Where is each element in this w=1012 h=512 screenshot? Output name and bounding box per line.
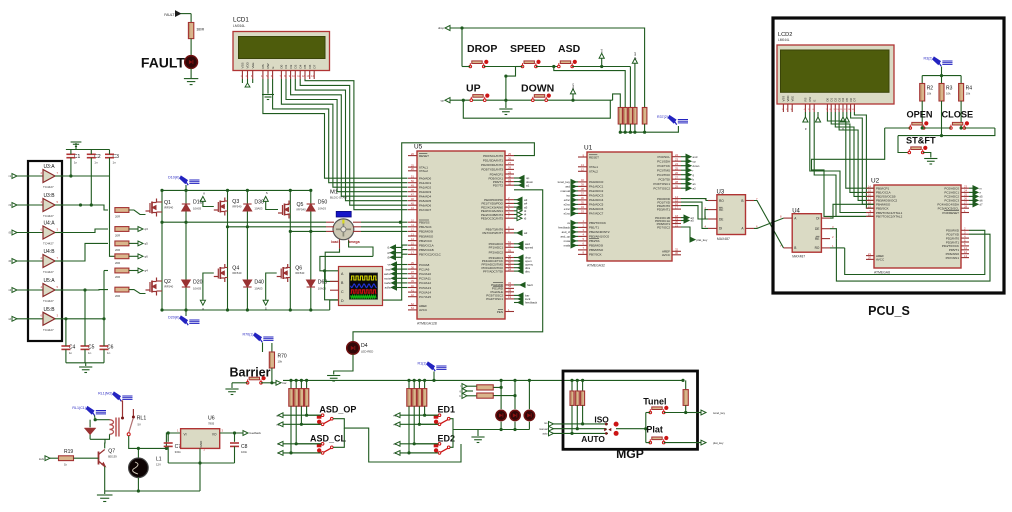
svg-text:ASD_CL: ASD_CL [310,433,347,443]
U2 pin PB7/TOSC2/XTAL2 [866,215,874,217]
svg-text:ATMEGA32: ATMEGA32 [587,264,605,268]
wire (U4 DE/RE tie) [830,229,836,239]
wire [262,343,264,353]
wire (H-bridge bottom rail) [162,309,330,311]
U2 pin PC0/ADC0 [961,187,969,189]
svg-text:D3: D3 [294,64,298,68]
diode D40 10A03 [243,280,251,287]
svg-text:feedback: feedback [250,431,262,435]
U1 pin PB0/T0/XCK [578,222,587,224]
wire (up rail) [450,99,613,101]
svg-text:17: 17 [411,251,415,255]
U1 pin PD3/INT1 [672,208,681,210]
U3 pin DE [708,218,717,220]
svg-text:1n: 1n [107,351,111,355]
terminal a3 (U1 right) [681,217,684,219]
svg-text:100n: 100n [241,450,248,454]
svg-text:PD7/OC2: PD7/OC2 [657,225,670,229]
wire (ASD pull columns) [307,406,322,415]
U5 pin PE2/XCK0/AIN0 [505,206,514,208]
svg-text:DE: DE [719,217,723,221]
subsystem box PCU_S [773,18,1004,293]
svg-text:PB0/T0/XCK: PB0/T0/XCK [589,221,606,225]
U1 pin PB3/AIN1/OC0 [578,235,587,237]
svg-text:D20(K): D20(K) [168,316,179,320]
resistor 20R (gate) [115,254,129,259]
terminal open [514,260,518,262]
svg-text:a1: a1 [693,182,697,186]
svg-text:PB4/SS: PB4/SS [589,239,600,243]
button Tunel [649,406,668,414]
switch ED2 [434,443,450,455]
U1 pin XTAL1 [578,166,587,168]
output terminal q5 [138,241,143,246]
wire (OPEN-CLOSE row) [885,127,911,129]
U3 pin RO [708,200,717,202]
svg-text:40: 40 [411,284,415,288]
terminal e (U2 right) [969,191,973,193]
ground (top caps) [71,142,82,147]
wire (up rail to pull resistor) [613,94,621,108]
svg-text:e1no: e1no [564,212,571,216]
svg-text:BD139: BD139 [108,455,117,459]
svg-text:27: 27 [675,176,679,180]
svg-text:23: 23 [675,158,679,162]
U2 pin PC6/RESET [961,212,969,214]
resistor pull (pack of 4) [618,108,622,125]
ground (buttons) [499,109,512,115]
wire (ED pull columns) [425,406,439,415]
wire [55,232,62,234]
wire [129,228,138,230]
svg-text:speed: speed [525,246,534,250]
wire (U2 PD0 loop to U4) [845,230,985,274]
svg-text:iso: iso [566,194,570,198]
wire (H-bridge leg) [310,190,312,310]
wire (MGP pull columns) [583,405,608,424]
wire [17,289,43,291]
svg-text:PC3/A11: PC3/A11 [419,277,431,281]
svg-text:10: 10 [868,213,872,217]
svg-text:i4: i4 [9,288,12,292]
resistor (LED R series 2) [477,393,494,398]
probe D10(K) [180,176,200,185]
svg-text:d7: d7 [980,203,984,207]
U2 pin PD5/T1 [961,249,969,251]
svg-text:35: 35 [411,261,415,265]
svg-text:37: 37 [411,270,415,274]
svg-text:45: 45 [411,202,415,206]
output terminal q3 [138,227,143,232]
svg-text:RESET: RESET [419,154,429,158]
U1 pin PC0/SCL [672,156,681,158]
svg-text:q3: q3 [145,227,149,231]
wire [190,39,192,56]
U1 pin PC4/TDO [672,174,681,176]
svg-text:330n: 330n [175,450,182,454]
svg-text:q5: q5 [145,242,149,246]
svg-text:RS: RS [261,64,265,68]
wire (LCD2 E to U2 PB7) [814,112,874,216]
wire (up net U-loop) [463,100,610,118]
terminal S (Q5 gate) [263,196,268,201]
wire (H-bridge leg) [289,190,291,310]
terminal d7 (U2 right) [969,203,973,205]
wire (U4 DI up to U2) [830,204,874,218]
svg-text:PB6/OC1B: PB6/OC1B [419,248,434,252]
svg-text:asbd: asbd [384,272,391,276]
U5 pin PF5/ADC5/TMS [505,263,514,265]
wire (U3 B cross to U4 B) [754,201,784,248]
terminal drop [514,257,518,259]
svg-text:RW: RW [266,63,270,68]
U5 pin PF7/ADC7/TDI [505,270,514,272]
U1 pin PB2/AIN0/INT2 [578,231,587,233]
U1 pin PD5/OC1A [672,220,681,222]
svg-text:36: 36 [581,196,585,200]
svg-text:15: 15 [411,242,415,246]
svg-text:plat_key: plat_key [713,441,724,445]
svg-text:35: 35 [581,201,585,205]
U1 pin PC1/SDA [672,160,681,162]
svg-text:32: 32 [508,182,512,186]
terminal d6 (U2 right) [969,199,973,201]
U2 pin PC2/ADC2 [961,195,969,197]
svg-text:tunel_key: tunel_key [558,180,571,184]
svg-text:a1: a1 [526,183,530,187]
wire (U3 A cross to U4 A) [754,218,784,228]
U2 pin PD6/AIN0 [961,253,969,255]
svg-text:sp out: sp out [633,52,637,60]
terminal i6 [514,217,517,219]
svg-text:PA0/AD0: PA0/AD0 [419,177,431,181]
terminal asd (up arrow) [601,58,603,66]
wire (H-bridge leg) [246,190,248,310]
svg-text:D6: D6 [308,64,312,68]
svg-text:IRF540: IRF540 [297,208,307,212]
probe RL1(NO) [113,392,133,401]
U3 pin RE [708,209,717,211]
wire (main +V rail) [283,379,683,381]
U5 pin PA4/AD4 [408,195,417,197]
svg-text:a2: a2 [524,231,528,235]
svg-text:U2: U2 [871,178,880,185]
svg-text:PD3/INT1: PD3/INT1 [657,207,671,211]
svg-text:62: 62 [411,302,415,306]
resistor 20R (gate) [115,227,129,232]
terminal (Q6 gate) [263,300,268,305]
wire (LCD1 data bus line 1) [263,79,408,178]
resistor pack (ASD pulls) [290,380,292,388]
ground (PSU) [97,495,113,502]
ground (bottom caps) [79,367,92,373]
U1 pin PB1/T1 [578,226,587,228]
LED FAULT (D?) [185,56,198,69]
U1 pin PA2/ADC2 [578,190,587,192]
U1 pin PD4/OC1B [672,217,681,219]
wire (load to scope B) [325,249,339,282]
wire (U3:B out net) [62,205,108,210]
svg-text:60: 60 [508,244,512,248]
svg-text:i3: i3 [9,203,12,207]
resistor pack (MGP pulls) [571,380,573,391]
resistor R4 10k [959,84,964,102]
U2 pin PB6/TOSC1/XTAL1 [866,212,874,214]
terminal a3 [514,199,517,201]
wire [181,13,192,15]
wire [572,66,630,68]
wire (iso column join) [571,423,583,425]
svg-text:down: down [571,83,575,90]
svg-text:q4: q4 [145,269,149,273]
wire (LCD1 data bus line 7) [300,79,407,205]
svg-text:D7: D7 [312,64,316,68]
U2 pin PB0/ICP1 [866,187,874,189]
terminal speed [514,246,518,248]
terminal (LCD2 E area arrow) [817,112,819,122]
svg-text:PD3/TXD1/INT3: PD3/TXD1/INT3 [481,168,503,172]
svg-text:54: 54 [508,267,512,271]
svg-text:13: 13 [411,232,415,236]
svg-text:PD0/SCL/INT0: PD0/SCL/INT0 [483,154,503,158]
diode D50 10A03 [307,204,315,211]
U1 pin PD2/INT0 [672,205,681,207]
U5 pin RESET [408,155,417,157]
U5 pin PF3/ADC3 [505,257,514,259]
svg-text:ED1: ED1 [438,405,456,415]
terminal down [514,181,519,183]
svg-text:RL1: RL1 [137,416,147,422]
svg-text:VEE: VEE [251,62,255,68]
svg-text:ASD_OP: ASD_OP [319,405,356,415]
probe R70(1) [254,333,274,342]
svg-text:feedback: feedback [525,301,538,305]
wire (series resistors feed) [462,384,467,389]
svg-text:CLOSE: CLOSE [942,110,974,120]
wire (cap top rail) [66,149,110,151]
ground (ST&FT) [924,159,937,165]
U5 pin PG1/RD [505,287,514,289]
svg-text:TC4427: TC4427 [43,214,54,218]
wire (LCD1 data bus line 6) [295,79,407,201]
wire [129,270,138,272]
svg-text:D: D [341,299,344,303]
svg-text:22: 22 [675,153,679,157]
capacitor C8 100n [234,433,236,442]
svg-text:PD2/RXD1/INT2: PD2/RXD1/INT2 [481,163,503,167]
U5 pin PF6/ADC6/TDO [505,267,514,269]
wire (motor right to U5 PB1) [361,226,408,228]
svg-text:RESET: RESET [589,155,599,159]
wire (H-bridge leg) [227,190,229,310]
svg-text:20R: 20R [115,275,120,279]
svg-text:D1: D1 [284,64,288,68]
wire (R3 bottom to rail) [941,101,943,136]
terminal dirc [514,270,518,272]
svg-text:and: and [693,155,698,159]
svg-text:34: 34 [581,205,585,209]
ground (LCD1 RW) [267,79,269,94]
svg-text:10k: 10k [946,92,951,96]
terminal b (U1 right) [681,178,686,180]
wire (U4 RO) [830,247,845,249]
svg-text:omega: omega [348,240,361,244]
svg-text:fault: fault [527,283,533,287]
wire (Q6 D/S tie) [286,267,290,269]
U1 pin PB5/MOSI [578,244,587,246]
svg-text:AUTO: AUTO [581,434,605,444]
svg-text:1n: 1n [69,351,73,355]
svg-text:MAX487: MAX487 [717,237,730,241]
oscilloscope (4-channel) [339,267,383,306]
U2 pin PC3/ADC3 [961,199,969,201]
svg-text:VI: VI [184,433,187,437]
svg-text:XTAL2: XTAL2 [589,170,598,174]
svg-text:PCU_S: PCU_S [868,304,910,318]
terminal down (U1 right) [681,165,686,167]
wire (tunel row) [664,412,686,414]
output terminal q6 [138,254,143,259]
svg-text:mota: mota [384,277,391,281]
U1 pin PA5/ADC5 [578,203,587,205]
wire [50,457,59,459]
svg-text:R1(1): R1(1) [418,362,427,366]
U5 pin PB5/OC1A [408,244,417,246]
U5 pin PEN [505,311,514,313]
U1 pin PB7/SCK [578,253,587,255]
wire (ED poles) [450,430,453,448]
wire [516,66,523,68]
svg-text:U4:A: U4:A [43,221,55,227]
U5 pin XTAL2 [408,170,417,172]
transistor Q3 IRF540 (N-MOSFET) [214,198,225,216]
svg-text:PC6/A14: PC6/A14 [419,290,431,294]
svg-text:RE: RE [719,208,723,212]
wire (U4:A out net) [62,229,108,233]
svg-text:mafa: mafa [564,244,571,248]
svg-text:PA0/ADC0: PA0/ADC0 [589,180,604,184]
svg-text:i5: i5 [9,231,12,235]
terminal a4 [514,202,517,204]
svg-text:44: 44 [411,206,415,210]
terminal (Q4 gate) [200,300,205,305]
svg-text:U5: U5 [414,144,423,151]
terminal r (U1 right) [681,169,686,171]
wire (R2 bottom to OPEN) [921,101,923,128]
wire (U1 PD1 to U3 DI) [681,202,708,228]
svg-text:bar: bar [283,381,287,385]
U2 pin PD3/INT1 [961,241,969,243]
motor M1 pins [326,222,361,248]
svg-text:PA4/ADC4: PA4/ADC4 [589,198,604,202]
svg-text:PA2/AD2: PA2/AD2 [419,186,431,190]
svg-text:25: 25 [508,152,512,156]
terminal rx (U2 right) [969,187,973,189]
U5 pin PG2/ALE [505,291,514,293]
wire (probe to NO contact) [121,401,122,417]
LED indicator 1 [496,410,506,420]
wire (Q3 D/S tie) [225,200,228,202]
svg-text:PC1/A9: PC1/A9 [419,267,430,271]
svg-text:i6: i6 [524,216,527,220]
svg-text:13: 13 [581,163,585,167]
diode D60 10A03 [307,280,315,287]
wire (U3 RE tie) [705,210,708,219]
svg-text:PF7/ADC7/TDI: PF7/ADC7/TDI [483,269,503,273]
svg-text:PB2/AIN0/INT2: PB2/AIN0/INT2 [589,230,610,234]
svg-text:adfa: adfa [385,286,391,290]
svg-text:20R: 20R [115,294,120,298]
transistor Q6 IRF540 (N-MOSFET) [277,264,288,282]
svg-text:48: 48 [411,188,415,192]
U5 pin PB0/SS [408,221,417,223]
terminal (LCD2 D4 arrow) [842,112,844,122]
terminal dira [514,267,518,269]
svg-text:OPEN: OPEN [907,110,933,120]
svg-text:PA5/AD5: PA5/AD5 [419,199,431,203]
svg-text:TC4427: TC4427 [43,242,54,246]
wire [629,67,631,108]
wire [129,242,138,244]
U5 pin PD4/ICP1 [505,173,514,175]
svg-text:MGP: MGP [616,447,644,461]
U5 pin PF1/ADC1 [505,246,514,248]
U5 pin PE5/OC3C/INT5 [505,217,514,219]
U4 pin DE [821,228,830,230]
svg-text:plat_key: plat_key [697,238,708,242]
wire (U3:A out net) [62,175,110,177]
svg-text:PC5/A13: PC5/A13 [419,286,431,290]
svg-text:E: E [812,100,816,102]
wire (VI node to C7) [166,433,168,442]
wire (scope A feed) [320,256,373,270]
wire [129,255,138,257]
U2 pin PD0/RXD [961,229,969,231]
wire (H-bridge leg) [161,190,163,310]
wire (phase B to motor) [228,226,327,228]
svg-text:mafa: mafa [384,281,391,285]
probe RL1(C1) [86,407,106,416]
terminal feedback (U6 out) [243,431,248,436]
terminal a5 (U1 right) [681,220,684,222]
transistor Q4 IRF540 (N-MOSFET) [214,264,225,282]
svg-text:10k: 10k [966,92,971,96]
wire (switch common to Plat node) [616,428,646,430]
svg-text:PC4/TDO: PC4/TDO [657,173,671,177]
wire (Q5 D/S tie) [288,203,291,205]
svg-text:D50: D50 [318,200,328,206]
U5 pin PC7/A15 [408,296,417,298]
ground [184,79,198,85]
wire [55,318,62,320]
svg-text:49: 49 [411,184,415,188]
scope trace C (red) [351,290,377,293]
svg-text:ATMEGA128: ATMEGA128 [417,322,437,326]
svg-text:PEN: PEN [497,310,503,314]
svg-text:PB3/MISO: PB3/MISO [419,234,434,238]
svg-text:Plat: Plat [646,424,663,434]
wire (LED cathodes to ground) [500,422,502,430]
U5 pin PD2/RXD1/INT2 [505,164,514,166]
svg-text:RE: RE [815,237,819,241]
svg-text:PB5/MOSI: PB5/MOSI [589,244,603,248]
switch ISO/AUTO (selector) [605,423,608,426]
resistor 20R (gate) [115,241,129,246]
svg-text:PB2/MOSI: PB2/MOSI [419,230,433,234]
svg-text:e2nc: e2nc [564,198,571,202]
wire (Q1 D/S tie) [157,201,163,203]
svg-text:20R: 20R [115,248,120,252]
